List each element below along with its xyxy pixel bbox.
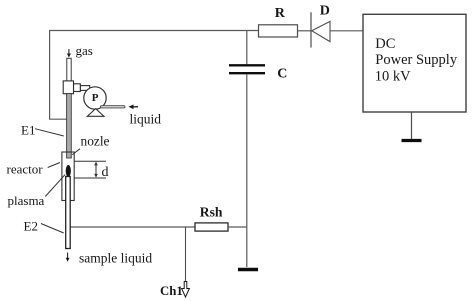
liquid flow arrow bbox=[129, 105, 139, 110]
capacitor C top plate bbox=[229, 64, 265, 66]
liquid inlet tube bbox=[101, 106, 126, 108]
dimension d top line bbox=[75, 160, 107, 162]
plasma pointer line bbox=[45, 175, 65, 197]
svg-text:gas: gas bbox=[76, 43, 93, 58]
gas tube upper section bbox=[67, 58, 71, 82]
svg-text:Rsh: Rsh bbox=[200, 205, 223, 220]
pump P circle bbox=[84, 87, 106, 109]
reactor outer tube bbox=[62, 152, 74, 201]
label R bbox=[275, 6, 286, 21]
dimension d arrow bbox=[94, 162, 98, 178]
wire Rsh to capacitor branch bbox=[228, 226, 247, 228]
svg-text:E2: E2 bbox=[24, 219, 38, 234]
capacitor C bottom plate bbox=[229, 72, 265, 74]
label E1 bbox=[21, 123, 35, 138]
svg-text:plasma: plasma bbox=[8, 193, 45, 208]
diode D cathode bar bbox=[310, 12, 312, 47]
reactor pointer line bbox=[48, 163, 60, 168]
nozzle tube (E1 electrode) bbox=[67, 94, 72, 159]
wire capacitor down to E2 node bbox=[246, 74, 248, 227]
sample liquid arrow bbox=[66, 253, 70, 262]
pump stand triangle bbox=[87, 109, 104, 117]
tee fitting side arm bbox=[74, 84, 81, 92]
label plasma bbox=[8, 193, 45, 208]
wire diode to DC supply bbox=[330, 30, 363, 32]
label DC Power Supply 10 kV bbox=[375, 36, 458, 85]
wire DC supply to ground bbox=[411, 112, 413, 139]
wire left vertical down to E1 tap bbox=[50, 31, 67, 120]
svg-text:Ch1: Ch1 bbox=[160, 284, 183, 298]
ground (bottom) bbox=[238, 268, 258, 272]
svg-text:nozle: nozle bbox=[81, 134, 110, 149]
label gas bbox=[76, 43, 93, 58]
label P bbox=[92, 92, 99, 104]
DC power supply box bbox=[363, 14, 466, 112]
dimension d bottom line bbox=[75, 177, 107, 179]
wire E2 to Rsh bbox=[70, 226, 195, 228]
wire E2 node down to ground bbox=[246, 227, 248, 267]
label d bbox=[102, 165, 109, 180]
plasma blob bbox=[66, 165, 71, 177]
svg-text:P: P bbox=[92, 92, 99, 104]
ground (DC supply) bbox=[402, 139, 422, 142]
svg-text:liquid: liquid bbox=[130, 112, 162, 127]
wire top horizontal from left corner to resistor R bbox=[49, 30, 259, 32]
sample capillary tube (E2 electrode) bbox=[66, 177, 71, 249]
label reactor bbox=[7, 162, 44, 177]
label liquid bbox=[130, 112, 162, 127]
svg-text:10 kV: 10 kV bbox=[375, 69, 411, 85]
tee fitting body bbox=[63, 81, 73, 94]
label D bbox=[320, 4, 330, 19]
svg-text:d: d bbox=[102, 165, 109, 180]
svg-text:reactor: reactor bbox=[7, 162, 44, 177]
label Ch1 bbox=[160, 284, 183, 298]
wire Ch1 probe branch bbox=[185, 227, 187, 282]
svg-text:C: C bbox=[277, 67, 287, 82]
label C bbox=[277, 67, 287, 82]
wire capacitor branch from top wire down to C bbox=[246, 31, 248, 65]
diode D triangle bbox=[312, 21, 330, 41]
resistor R bbox=[259, 25, 298, 37]
svg-text:DC: DC bbox=[375, 36, 395, 52]
label sample liquid bbox=[79, 251, 152, 266]
Ch1 probe hollow arrow bbox=[182, 282, 190, 298]
svg-text:E1: E1 bbox=[21, 123, 35, 138]
tee fitting side arm nose bbox=[80, 86, 89, 91]
label Rsh bbox=[200, 205, 223, 220]
label E2 bbox=[24, 219, 38, 234]
nozle pointer line bbox=[72, 149, 80, 155]
E2 pointer line bbox=[41, 224, 64, 234]
svg-text:R: R bbox=[275, 6, 286, 21]
E1 pointer line bbox=[35, 129, 64, 136]
svg-text:D: D bbox=[320, 4, 330, 19]
svg-text:sample liquid: sample liquid bbox=[79, 251, 152, 266]
gas inlet arrow bbox=[67, 49, 71, 58]
wire resistor to diode bbox=[298, 30, 312, 32]
svg-text:Power Supply: Power Supply bbox=[375, 52, 458, 68]
label nozle bbox=[81, 134, 110, 149]
resistor Rsh bbox=[195, 223, 228, 231]
